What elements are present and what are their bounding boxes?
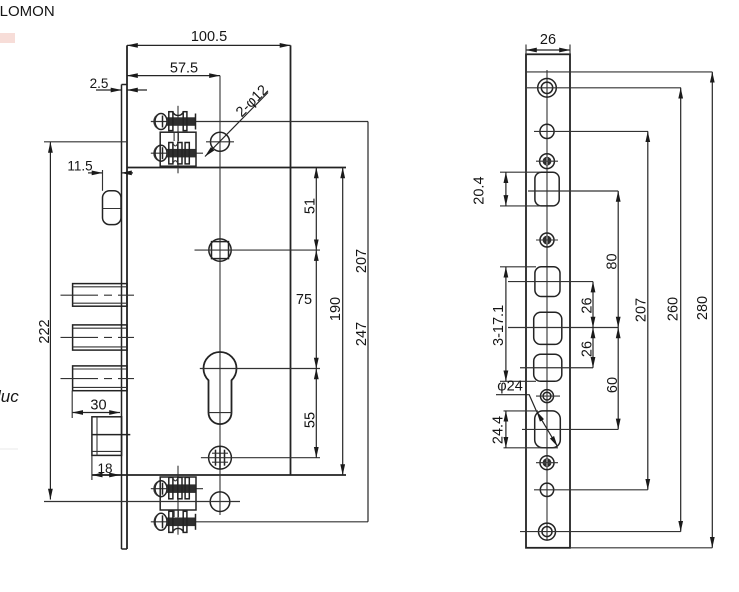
bottom lug bracket: [160, 477, 196, 517]
dimension 55: [303, 369, 319, 458]
svg-text:51: 51: [303, 198, 319, 214]
bottom lug screw C axis: [151, 488, 203, 490]
plate screw hole 4: [536, 233, 558, 247]
plate hole 2: [534, 124, 648, 138]
svg-text:207: 207: [354, 249, 370, 273]
dimension line 207/247 right jog: [354, 122, 370, 522]
plate hole top countersunk: [527, 79, 681, 98]
leader phi24: [496, 379, 558, 447]
follower hub with square: [195, 239, 321, 261]
hole phi12 bottom: [210, 492, 230, 512]
faceplate centerline: [546, 70, 548, 540]
guard bolt box: [92, 417, 130, 456]
svg-text:2.5: 2.5: [90, 76, 109, 91]
dimension 280: [695, 72, 712, 548]
dimension 100.5: [127, 29, 291, 45]
dimension 60: [605, 328, 621, 430]
dimension 190: [328, 168, 344, 476]
latch pocket: [103, 191, 122, 225]
top lug bolt axis upper (extends to 247 dim corner): [151, 121, 368, 123]
svg-text:75: 75: [296, 292, 312, 308]
faceplate fold line extended to 280 dim: [526, 71, 712, 73]
dimension 26 upper boxes: [580, 282, 596, 328]
euro cylinder keyhole: [200, 352, 320, 424]
svg-text:24.4: 24.4: [490, 416, 506, 444]
bottom lug screw D axis (extends to 247 dim corner): [151, 521, 368, 523]
svg-text:11.5: 11.5: [67, 159, 92, 174]
svg-text:55: 55: [303, 412, 319, 428]
svg-text:30: 30: [90, 398, 106, 414]
dimension 30: [72, 391, 120, 418]
plate bottom edge extended to 280 dim: [570, 547, 712, 549]
svg-text:57.5: 57.5: [170, 61, 198, 77]
deadbolt 1: [61, 284, 135, 307]
dimension 222: [37, 142, 240, 502]
svg-text:26: 26: [580, 297, 596, 313]
svg-text:OLOMON: OLOMON: [0, 3, 55, 20]
plate hole 7: [534, 483, 648, 496]
case bottom edge extended left and right: [92, 474, 346, 476]
case right edge with extension up to 100.5 dim: [290, 45, 292, 475]
deadbolt 2: [61, 325, 135, 350]
dimension 57.5: [127, 61, 220, 77]
dimension 2.5: [90, 76, 147, 91]
svg-text:190: 190: [328, 297, 344, 321]
watermark pink top-left: [0, 33, 15, 43]
dimension 51: [303, 168, 319, 251]
leader 2-phi12: [205, 82, 272, 156]
deadbolt 3: [61, 366, 135, 391]
hole phi12 top: [206, 132, 234, 151]
bottom lug screw D: [154, 511, 195, 532]
bottom lug centerline: [177, 466, 179, 535]
svg-text:26: 26: [540, 32, 556, 48]
dimension 207 plate: [634, 131, 650, 489]
dimension 3-17.1: [491, 267, 536, 382]
plate screw hole 3: [536, 154, 558, 169]
top lug bolt axis lower: [151, 152, 203, 154]
screw head below keyhole: [201, 446, 320, 469]
plate cutout box 3: [508, 312, 618, 344]
plate cutout box 4: [520, 354, 593, 381]
svg-text:280: 280: [695, 296, 711, 320]
bottom lug screw C: [154, 477, 196, 498]
plate hole 5: [536, 390, 560, 403]
top lug screw A: [154, 112, 196, 131]
dimension 26 lower boxes: [580, 328, 596, 368]
case left edge / strip right edge: [126, 45, 128, 549]
svg-text:luc: luc: [0, 387, 19, 406]
dimension 11.5: [67, 159, 133, 191]
dimension 20.4: [472, 172, 540, 206]
svg-text:260: 260: [666, 297, 682, 321]
dimension 18: [92, 455, 120, 480]
dimension 75: [296, 250, 316, 368]
svg-text:207: 207: [634, 298, 650, 322]
plate cutout box 1: [528, 172, 618, 206]
plate hole 8 countersunk: [520, 523, 681, 540]
faceplate front view outline: [526, 54, 570, 548]
plate screw hole 6: [536, 456, 558, 470]
svg-text:100.5: 100.5: [191, 29, 227, 45]
svg-text:247: 247: [354, 322, 370, 346]
top lug screw B: [154, 143, 196, 164]
top lug bracket: [160, 132, 196, 166]
dimension 80: [605, 191, 621, 328]
dimension 26 plate width: [526, 32, 570, 54]
top lug centerline: [177, 106, 179, 174]
svg-text:φ24: φ24: [497, 379, 523, 395]
svg-text:18: 18: [97, 461, 112, 476]
watermark faint line left: [0, 448, 18, 450]
dimension 260: [666, 88, 682, 532]
svg-text:80: 80: [605, 253, 621, 269]
plate cylinder cutout box 5: [522, 411, 618, 448]
svg-text:222: 222: [37, 319, 53, 343]
plate cutout box 2: [508, 267, 593, 297]
vertical centerline of lock holes: [219, 76, 221, 515]
svg-text:3-17.1: 3-17.1: [491, 305, 507, 346]
svg-text:26: 26: [580, 341, 596, 357]
dimension 24.4: [490, 411, 558, 448]
svg-text:20.4: 20.4: [472, 176, 488, 204]
svg-text:60: 60: [605, 377, 621, 393]
case top edge extended right: [127, 167, 346, 169]
faceplate strip (side view): [122, 85, 128, 550]
